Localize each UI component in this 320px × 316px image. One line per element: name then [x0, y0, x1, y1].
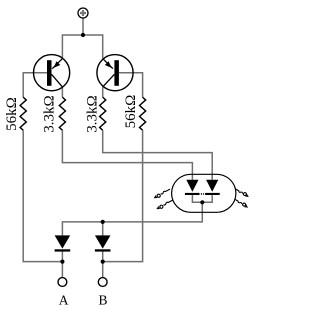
wire: D2 anode drop — [102, 222, 104, 236]
diode D1 — [55, 235, 71, 251]
wire: diode anode rail to LED cathode — [62, 202, 202, 235]
LED2 (right) — [205, 180, 220, 195]
transistor Q1 (left PNP) — [34, 55, 70, 91]
transistor Q2 (right PNP) — [97, 55, 133, 91]
light arrow right lower — [234, 198, 249, 209]
junction: V+ rail node — [81, 33, 85, 37]
wire: node A to terminal A — [61, 262, 63, 278]
terminal B — [98, 278, 107, 287]
svg-text:B: B — [98, 293, 107, 308]
LED1 (left) — [185, 180, 200, 195]
light arrow left lower — [155, 198, 173, 210]
wire: D1 cathode to node A — [61, 252, 63, 262]
svg-text:56kΩ: 56kΩ — [4, 97, 20, 131]
wire: LED cathode bus — [192, 195, 212, 202]
wire: Q2 base to R4 — [119, 73, 143, 97]
LED package outline — [172, 174, 236, 212]
light arrow right upper — [235, 187, 250, 198]
wire: V+ rail with emitter drops — [62, 35, 102, 59]
svg-text:3.3kΩ: 3.3kΩ — [42, 95, 58, 132]
junction: LED common cathode — [200, 200, 204, 204]
wire: node B to terminal B — [102, 262, 104, 278]
wire: Q2 collector to R3 — [102, 87, 104, 97]
resistor R4 56k — [140, 97, 146, 130]
svg-text:56kΩ: 56kΩ — [123, 95, 139, 129]
dashed cathode tie — [201, 193, 204, 195]
power supply V+ symbol — [78, 8, 88, 18]
wire: supply stem — [82, 18, 84, 35]
light arrow left upper — [153, 187, 171, 199]
terminal A — [58, 278, 67, 287]
diode D2 — [95, 235, 111, 251]
resistor R3 3.3k — [100, 97, 106, 130]
resistor R1 56k — [20, 97, 26, 130]
resistor R2 3.3k — [59, 97, 65, 130]
svg-text:A: A — [59, 293, 69, 308]
junction: node B — [101, 260, 105, 264]
wire: D2 cathode to node B — [102, 252, 104, 262]
junction: node A — [60, 260, 64, 264]
wire: Q1 collector to R2 — [61, 87, 63, 97]
wire: Q1 base to R1 — [23, 73, 47, 97]
svg-text:3.3kΩ: 3.3kΩ — [85, 95, 101, 132]
wire: R2 bottom to LED1 anode — [62, 130, 192, 180]
wire: R1 bottom to node A — [23, 130, 62, 261]
junction: D2 anode node — [101, 220, 105, 224]
wire: R3 bottom to LED2 anode — [103, 130, 213, 180]
wire: R4 bottom to node B — [103, 130, 143, 261]
